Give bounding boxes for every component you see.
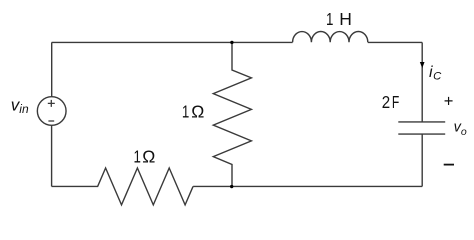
svg-text:1Ω: 1Ω <box>182 102 204 122</box>
svg-text:iC: iC <box>429 64 442 83</box>
svg-text:2F: 2F <box>382 92 400 112</box>
svg-text:vo: vo <box>454 120 467 139</box>
svg-text:+: + <box>444 92 454 110</box>
svg-text:1Ω: 1Ω <box>134 147 156 167</box>
svg-text:1H: 1H <box>326 9 352 29</box>
svg-text:vin: vin <box>11 96 29 116</box>
